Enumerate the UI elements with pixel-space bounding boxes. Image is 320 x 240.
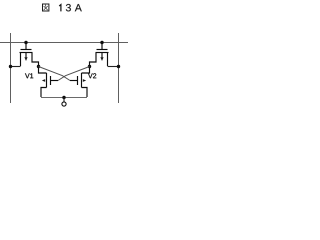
- figure title number 13A: [59, 4, 82, 11]
- junction dot on rail at Q2 gate: [100, 41, 103, 44]
- Q3 substrate arrowhead: [42, 79, 45, 82]
- label V1: [25, 73, 33, 78]
- cross-coupling wire V1 node to Q4 gate: [39, 67, 71, 81]
- node V1 junction dot: [37, 65, 40, 68]
- junction dot tail: [62, 96, 65, 99]
- junction dot right supply: [117, 65, 120, 68]
- transistor Q1 (top left load): [20, 43, 39, 67]
- transistor Q4 (cross-coupled right): [70, 67, 90, 98]
- wire to tail terminal: [63, 98, 65, 103]
- Q4 substrate arrowhead: [83, 79, 86, 82]
- junction dot left supply: [9, 65, 12, 68]
- tail terminal circle: [62, 102, 66, 106]
- wire Q1 source to left supply: [11, 66, 21, 68]
- left supply wire: [10, 33, 12, 103]
- transistor Q2 (top right load): [90, 43, 109, 67]
- label V2: [88, 73, 96, 78]
- bottom tail wire: [41, 97, 87, 99]
- Q1 substrate arrowhead: [24, 57, 27, 61]
- junction dot on rail at Q1 gate: [24, 41, 27, 44]
- figure title kanji ZU (figure): [43, 4, 49, 11]
- top rail wire: [0, 42, 128, 44]
- node V2 junction dot: [88, 65, 91, 68]
- Q2 substrate arrowhead: [100, 57, 103, 61]
- cross-coupling wire V2 node to Q3 gate: [58, 67, 90, 81]
- right supply wire: [118, 33, 120, 103]
- wire Q2 source to right supply: [108, 66, 119, 68]
- transistor Q3 (cross-coupled left): [39, 67, 59, 98]
